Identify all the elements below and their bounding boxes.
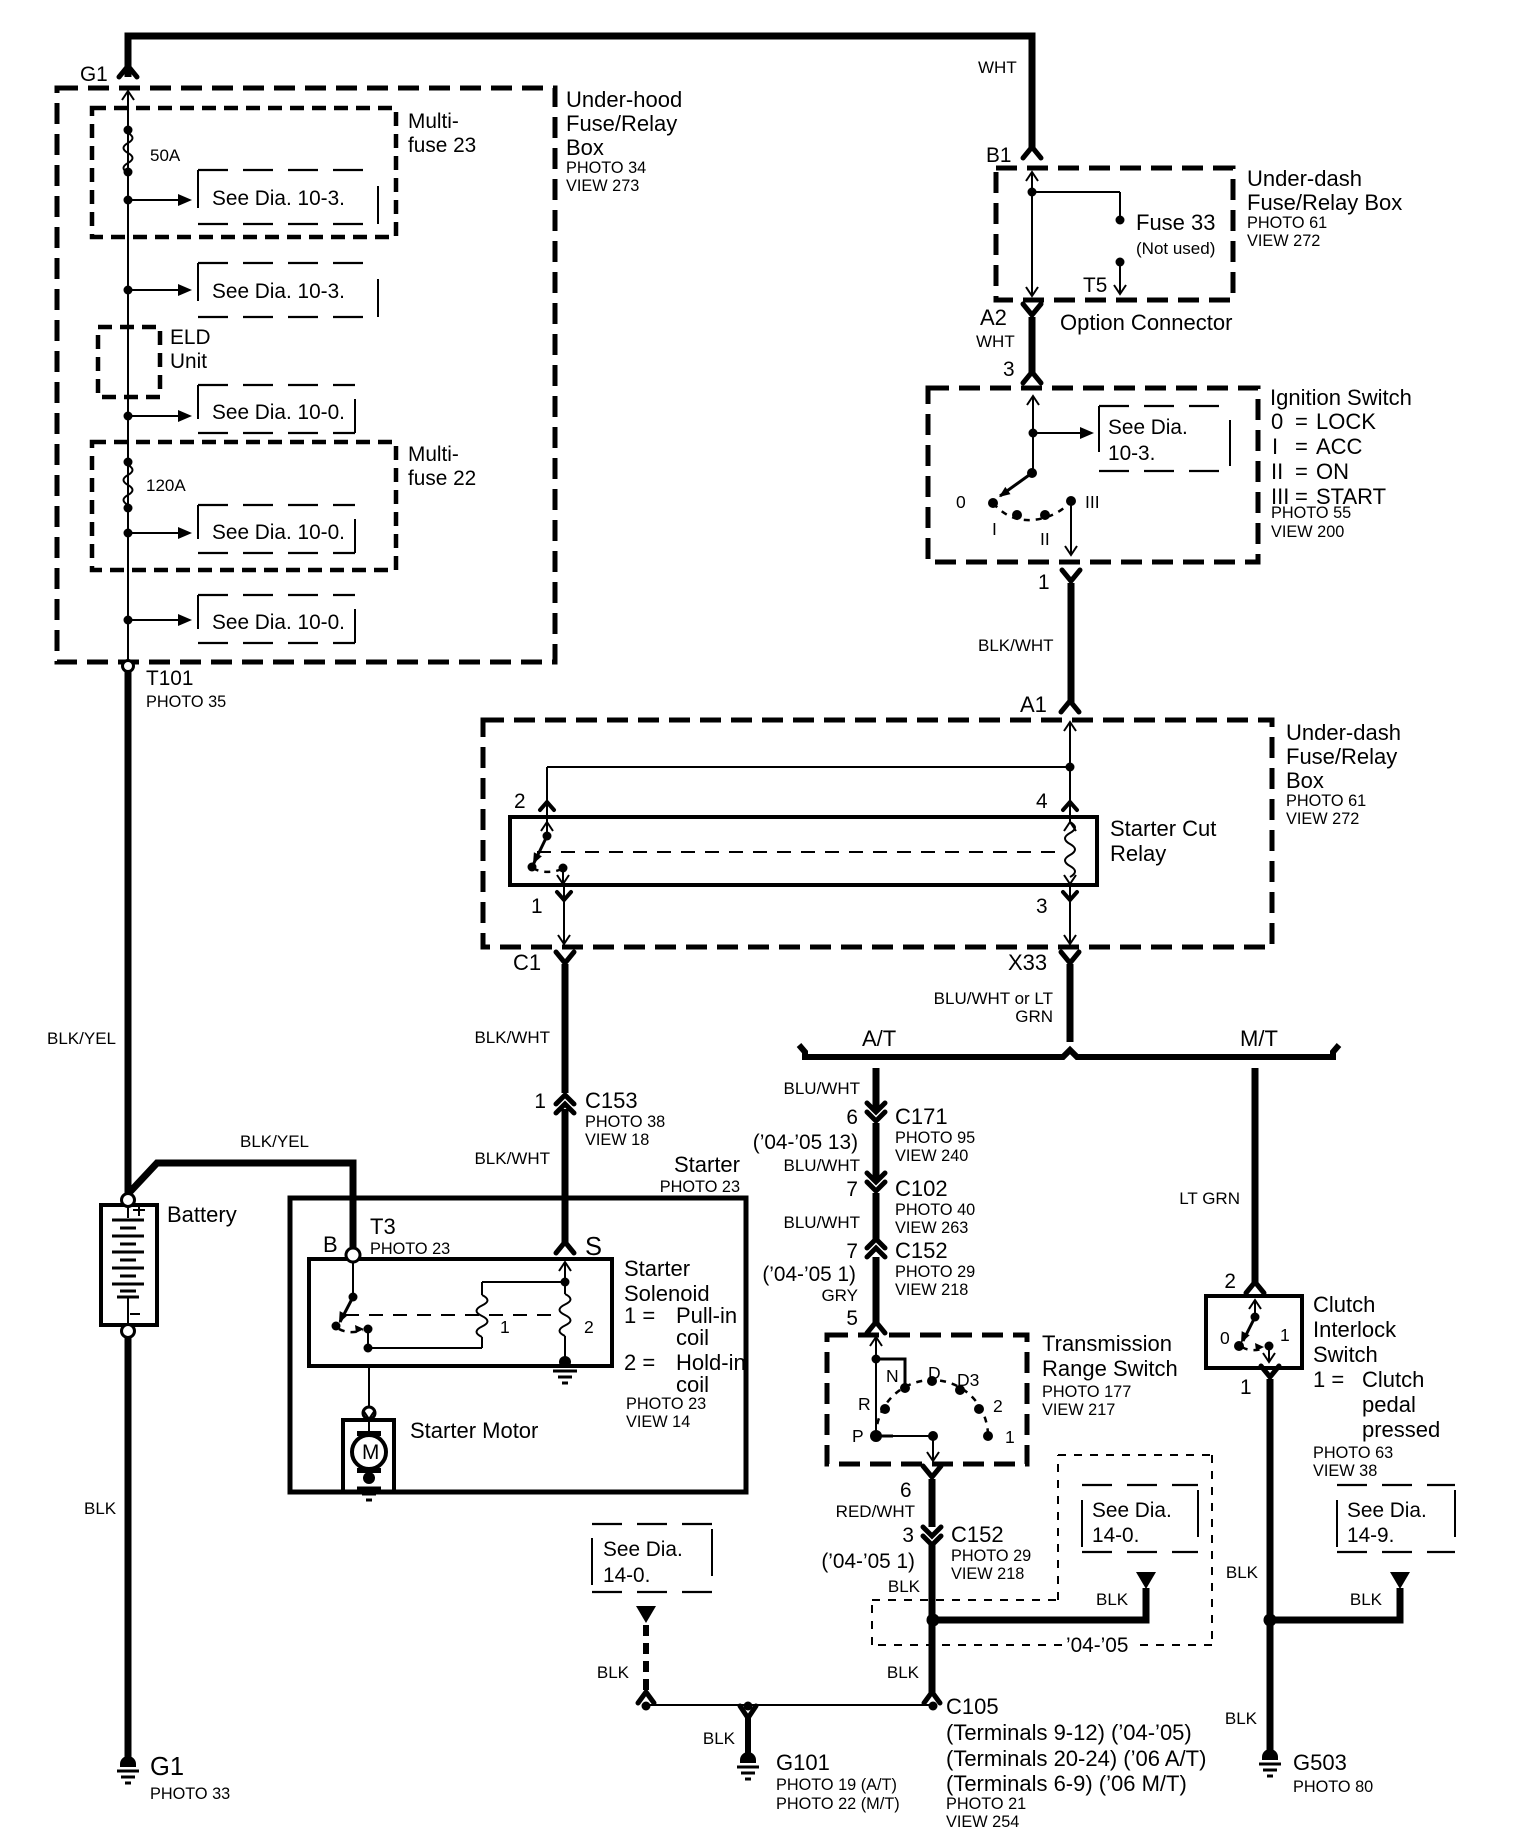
svg-text:VIEW 200: VIEW 200: [1271, 523, 1344, 541]
svg-text:7: 7: [846, 1178, 858, 1201]
svg-text:BLK: BLK: [1096, 1590, 1129, 1609]
svg-text:LT GRN: LT GRN: [1179, 1189, 1240, 1208]
svg-text:0: 0: [956, 492, 966, 512]
svg-text:Unit: Unit: [170, 350, 207, 373]
svg-text:2: 2: [514, 790, 526, 813]
svg-text:VIEW 273: VIEW 273: [566, 177, 639, 195]
svg-text:P: P: [852, 1426, 864, 1446]
svg-text:VIEW 218: VIEW 218: [895, 1281, 968, 1299]
svg-text:See Dia. 10-0.: See Dia. 10-0.: [212, 611, 345, 634]
svg-text:Multi-: Multi-: [408, 443, 459, 466]
svg-text:A2: A2: [980, 305, 1007, 330]
svg-text:2: 2: [993, 1396, 1003, 1416]
svg-text:PHOTO 19 (A/T): PHOTO 19 (A/T): [776, 1776, 897, 1794]
svg-text:Switch: Switch: [1313, 1342, 1378, 1367]
svg-text:C1: C1: [513, 950, 541, 975]
svg-text:Under-dash: Under-dash: [1286, 720, 1401, 745]
svg-text:VIEW 38: VIEW 38: [1313, 1462, 1377, 1480]
svg-text:T5: T5: [1083, 274, 1107, 297]
svg-text:See Dia. 10-3.: See Dia. 10-3.: [212, 280, 345, 303]
svg-text:coil: coil: [676, 1325, 709, 1350]
svg-text:BLU/WHT: BLU/WHT: [784, 1213, 861, 1232]
svg-text:G503: G503: [1293, 1750, 1347, 1775]
svg-text:(’04-’05 1): (’04-’05 1): [762, 1263, 856, 1286]
svg-text:C105: C105: [946, 1694, 999, 1719]
svg-text:See Dia. 10-0.: See Dia. 10-0.: [212, 521, 345, 544]
svg-text:50A: 50A: [150, 146, 181, 165]
svg-text:VIEW 217: VIEW 217: [1042, 1401, 1115, 1419]
svg-text:BLU/WHT or LT: BLU/WHT or LT: [934, 989, 1053, 1008]
svg-text:3: 3: [1036, 895, 1048, 918]
svg-text:D: D: [928, 1363, 941, 1383]
svg-text:BLK: BLK: [1226, 1563, 1259, 1582]
svg-text:14-9.: 14-9.: [1347, 1524, 1394, 1547]
svg-text:C102: C102: [895, 1176, 948, 1201]
svg-text:VIEW 218: VIEW 218: [951, 1565, 1024, 1583]
svg-text:G101: G101: [776, 1750, 830, 1775]
svg-text:B: B: [323, 1232, 338, 1257]
svg-text:1: 1: [1005, 1427, 1015, 1447]
svg-text:pressed: pressed: [1362, 1417, 1440, 1442]
svg-text:A1: A1: [1020, 692, 1047, 717]
svg-text:(Terminals 6-9) (’06 M/T): (Terminals 6-9) (’06 M/T): [946, 1771, 1187, 1796]
svg-text:’04-’05: ’04-’05: [1066, 1634, 1128, 1657]
svg-text:PHOTO 34: PHOTO 34: [566, 159, 646, 177]
svg-text:PHOTO 21: PHOTO 21: [946, 1795, 1026, 1813]
svg-text:A/T: A/T: [862, 1026, 896, 1051]
svg-text:C153: C153: [585, 1088, 638, 1113]
svg-text:PHOTO 95: PHOTO 95: [895, 1129, 975, 1147]
svg-text:VIEW 272: VIEW 272: [1247, 232, 1320, 250]
svg-text:fuse 23: fuse 23: [408, 134, 476, 157]
svg-text:ON: ON: [1316, 459, 1349, 484]
svg-text:pedal: pedal: [1362, 1392, 1416, 1417]
svg-text:PHOTO 23: PHOTO 23: [626, 1395, 706, 1413]
svg-text:5: 5: [846, 1307, 858, 1330]
svg-text:fuse 22: fuse 22: [408, 467, 476, 490]
svg-text:BLU/WHT: BLU/WHT: [784, 1079, 861, 1098]
svg-text:VIEW 254: VIEW 254: [946, 1813, 1019, 1831]
svg-text:RED/WHT: RED/WHT: [836, 1502, 915, 1521]
svg-text:S: S: [585, 1233, 602, 1261]
svg-text:(Terminals 20-24) (’06 A/T): (Terminals 20-24) (’06 A/T): [946, 1746, 1206, 1771]
svg-text:Battery: Battery: [167, 1202, 237, 1227]
svg-text:BLK/YEL: BLK/YEL: [47, 1029, 116, 1048]
svg-text:See Dia.: See Dia.: [1347, 1499, 1427, 1522]
svg-text:VIEW 240: VIEW 240: [895, 1147, 968, 1165]
svg-text:coil: coil: [676, 1372, 709, 1397]
svg-text:Transmission: Transmission: [1042, 1331, 1172, 1356]
svg-text:=: =: [1295, 459, 1308, 484]
svg-text:Relay: Relay: [1110, 841, 1166, 866]
svg-text:1 =: 1 =: [1313, 1367, 1344, 1392]
svg-text:See Dia.: See Dia.: [603, 1538, 683, 1561]
svg-text:Starter Cut: Starter Cut: [1110, 816, 1216, 841]
svg-text:I: I: [992, 519, 997, 539]
svg-text:Box: Box: [566, 135, 604, 160]
svg-text:0: 0: [1220, 1328, 1230, 1348]
svg-text:(Terminals 9-12) (’04-’05): (Terminals 9-12) (’04-’05): [946, 1720, 1192, 1745]
svg-text:Starter: Starter: [674, 1152, 740, 1177]
svg-text:C152: C152: [895, 1238, 948, 1263]
svg-text:BLK: BLK: [597, 1663, 630, 1682]
svg-text:PHOTO 35: PHOTO 35: [146, 693, 226, 711]
svg-text:G1: G1: [150, 1753, 184, 1781]
svg-text:7: 7: [846, 1240, 858, 1263]
svg-text:1: 1: [531, 895, 543, 918]
svg-text:I: I: [1272, 434, 1278, 459]
svg-text:BLK: BLK: [887, 1663, 920, 1682]
svg-text:Multi-: Multi-: [408, 110, 459, 133]
svg-text:GRY: GRY: [821, 1286, 858, 1305]
svg-text:1: 1: [1038, 571, 1050, 594]
svg-text:(Not used): (Not used): [1136, 239, 1215, 258]
svg-text:(’04-’05 1): (’04-’05 1): [821, 1550, 915, 1573]
svg-text:=: =: [1295, 434, 1308, 459]
svg-text:PHOTO 61: PHOTO 61: [1247, 214, 1327, 232]
svg-text:GRN: GRN: [1015, 1007, 1053, 1026]
svg-text:PHOTO 23: PHOTO 23: [660, 1178, 740, 1196]
svg-text:Starter Motor: Starter Motor: [410, 1418, 538, 1443]
svg-text:II: II: [1040, 529, 1050, 549]
svg-text:PHOTO 33: PHOTO 33: [150, 1785, 230, 1803]
svg-text:PHOTO 29: PHOTO 29: [951, 1547, 1031, 1565]
svg-text:B1: B1: [986, 144, 1011, 167]
svg-text:10-3.: 10-3.: [1108, 442, 1155, 465]
svg-text:Under-dash: Under-dash: [1247, 166, 1362, 191]
svg-text:Interlock: Interlock: [1313, 1317, 1397, 1342]
svg-text:N: N: [886, 1366, 899, 1386]
svg-text:1: 1: [534, 1090, 546, 1113]
svg-text:X33: X33: [1008, 950, 1047, 975]
svg-text:2: 2: [1224, 1270, 1236, 1293]
svg-text:BLK: BLK: [1225, 1709, 1258, 1728]
svg-text:PHOTO 80: PHOTO 80: [1293, 1778, 1373, 1796]
svg-text:PHOTO 63: PHOTO 63: [1313, 1444, 1393, 1462]
svg-text:See Dia. 10-3.: See Dia. 10-3.: [212, 187, 345, 210]
svg-text:Ignition Switch: Ignition Switch: [1270, 385, 1412, 410]
svg-text:Range Switch: Range Switch: [1042, 1356, 1178, 1381]
svg-text:1: 1: [1280, 1325, 1290, 1345]
svg-text:WHT: WHT: [978, 58, 1017, 77]
svg-text:BLK: BLK: [703, 1729, 736, 1748]
svg-text:BLK: BLK: [1350, 1590, 1383, 1609]
svg-text:T101: T101: [146, 667, 193, 690]
svg-text:Fuse/Relay Box: Fuse/Relay Box: [1247, 190, 1402, 215]
svg-text:LOCK: LOCK: [1316, 409, 1376, 434]
svg-text:C171: C171: [895, 1104, 948, 1129]
svg-text:M/T: M/T: [1240, 1026, 1278, 1051]
svg-text:PHOTO 40: PHOTO 40: [895, 1201, 975, 1219]
svg-text:BLK: BLK: [888, 1577, 921, 1596]
svg-text:6: 6: [900, 1479, 912, 1502]
svg-text:VIEW 18: VIEW 18: [585, 1131, 649, 1149]
svg-text:G1: G1: [80, 63, 108, 86]
svg-text:PHOTO 61: PHOTO 61: [1286, 792, 1366, 810]
svg-text:Clutch: Clutch: [1313, 1292, 1375, 1317]
svg-text:C152: C152: [951, 1522, 1004, 1547]
svg-text:2: 2: [584, 1317, 594, 1337]
svg-text:Under-hood: Under-hood: [566, 87, 682, 112]
svg-text:3: 3: [1003, 358, 1015, 381]
svg-text:BLK/YEL: BLK/YEL: [240, 1132, 309, 1151]
svg-text:T3: T3: [370, 1214, 396, 1239]
svg-text:1: 1: [1240, 1376, 1252, 1399]
svg-text:Starter: Starter: [624, 1256, 690, 1281]
svg-text:VIEW 272: VIEW 272: [1286, 810, 1359, 828]
svg-text:R: R: [858, 1394, 871, 1414]
svg-text:PHOTO 38: PHOTO 38: [585, 1113, 665, 1131]
svg-text:BLK: BLK: [84, 1499, 117, 1518]
svg-text:2 =: 2 =: [624, 1350, 655, 1375]
svg-text:PHOTO 177: PHOTO 177: [1042, 1383, 1131, 1401]
svg-text:14-0.: 14-0.: [1092, 1524, 1139, 1547]
svg-text:3: 3: [902, 1524, 914, 1547]
svg-text:See Dia. 10-0.: See Dia. 10-0.: [212, 401, 345, 424]
svg-text:BLK/WHT: BLK/WHT: [474, 1149, 550, 1168]
svg-text:WHT: WHT: [976, 332, 1015, 351]
svg-text:M: M: [362, 1441, 379, 1464]
svg-text:(’04-’05 13): (’04-’05 13): [753, 1131, 858, 1154]
svg-text:Fuse/Relay: Fuse/Relay: [566, 111, 677, 136]
svg-text:=: =: [1295, 409, 1308, 434]
svg-text:Fuse 33: Fuse 33: [1136, 210, 1216, 235]
svg-text:See Dia.: See Dia.: [1108, 416, 1188, 439]
svg-text:BLK/WHT: BLK/WHT: [978, 636, 1054, 655]
svg-text:See Dia.: See Dia.: [1092, 1499, 1172, 1522]
svg-text:0: 0: [1271, 409, 1283, 434]
svg-text:Clutch: Clutch: [1362, 1367, 1424, 1392]
svg-text:Fuse/Relay: Fuse/Relay: [1286, 744, 1397, 769]
svg-text:BLU/WHT: BLU/WHT: [784, 1156, 861, 1175]
svg-text:1: 1: [500, 1317, 510, 1337]
svg-text:III: III: [1085, 492, 1100, 512]
svg-text:6: 6: [846, 1106, 858, 1129]
svg-text:PHOTO 23: PHOTO 23: [370, 1240, 450, 1258]
svg-text:PHOTO 29: PHOTO 29: [895, 1263, 975, 1281]
svg-text:4: 4: [1036, 790, 1048, 813]
svg-text:Box: Box: [1286, 768, 1324, 793]
svg-text:VIEW 263: VIEW 263: [895, 1219, 968, 1237]
svg-text:II: II: [1271, 459, 1283, 484]
svg-text:ACC: ACC: [1316, 434, 1363, 459]
svg-text:BLK/WHT: BLK/WHT: [474, 1028, 550, 1047]
svg-text:D3: D3: [957, 1370, 979, 1390]
svg-text:PHOTO 22 (M/T): PHOTO 22 (M/T): [776, 1795, 900, 1813]
svg-text:1 =: 1 =: [624, 1303, 655, 1328]
svg-text:Option Connector: Option Connector: [1060, 310, 1232, 335]
svg-text:120A: 120A: [146, 476, 186, 495]
svg-text:ELD: ELD: [170, 326, 210, 349]
svg-text:PHOTO 55: PHOTO 55: [1271, 504, 1351, 522]
svg-text:14-0.: 14-0.: [603, 1564, 650, 1587]
svg-text:VIEW 14: VIEW 14: [626, 1413, 690, 1431]
